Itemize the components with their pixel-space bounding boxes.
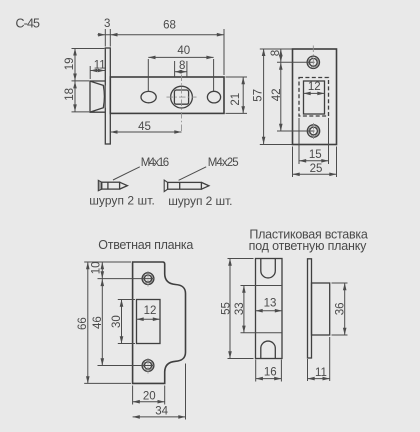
dim line 3 / 68 (98, 34, 225, 36)
centerline vertical through square (181, 75, 183, 133)
svg-text:шуруп 2 шт.: шуруп 2 шт. (89, 194, 155, 208)
top notch (261, 259, 276, 278)
insert side block (312, 283, 330, 335)
extension lines left (84, 261, 131, 263)
faceplate front outline (293, 49, 337, 145)
svg-text:30: 30 (111, 315, 123, 328)
bottom screw hole (307, 125, 319, 137)
svg-text:25: 25 (310, 163, 323, 175)
latch hole 12 (304, 81, 325, 114)
screw M4x25 tip (201, 182, 209, 189)
svg-text:С-45: С-45 (16, 17, 41, 31)
hole centerlines (277, 61, 315, 63)
dim 20 (132, 386, 134, 405)
dim 33 (243, 286, 245, 333)
dim 21 (226, 76, 248, 78)
dim 19 / 18 extension lines (72, 48, 105, 50)
screw M4x16 head (98, 180, 101, 190)
dim 57 (260, 48, 292, 50)
screw M4x16 tip (120, 182, 128, 189)
dim 55 (229, 259, 231, 359)
centerline horizontal through circle (167, 96, 197, 98)
dim line 19/18 (74, 48, 76, 111)
svg-text:68: 68 (163, 20, 176, 32)
svg-text:под ответную планку: под ответную планку (249, 239, 368, 253)
dim 8 / 42 line (277, 48, 290, 50)
svg-text:13: 13 (264, 298, 277, 310)
svg-text:10: 10 (90, 262, 102, 275)
svg-text:34: 34 (155, 405, 168, 417)
svg-text:36: 36 (335, 303, 347, 316)
dim 55 ext (228, 258, 254, 260)
dim 25 (292, 147, 294, 178)
svg-text:20: 20 (143, 391, 156, 403)
svg-text:55: 55 (220, 302, 232, 315)
svg-text:шуруп 2 шт.: шуруп 2 шт. (168, 194, 232, 208)
extension line dim 68 right (223, 29, 225, 75)
svg-text:3: 3 (104, 18, 110, 30)
latch bolt (90, 81, 106, 112)
strike rect hole (137, 300, 161, 344)
strike plate outline (133, 262, 186, 383)
dim 34 (185, 364, 187, 420)
faceplate side bar (105, 48, 110, 144)
insert front outline (256, 259, 283, 359)
dim 45 (110, 131, 181, 133)
extension line to oval right (213, 59, 215, 92)
svg-text:33: 33 (234, 302, 246, 315)
bottom screw hole (142, 360, 154, 372)
leader M4x25 (179, 167, 207, 181)
bottom notch (261, 341, 276, 358)
svg-text:11: 11 (315, 367, 327, 379)
svg-text:16: 16 (264, 367, 277, 379)
spindle circle (171, 86, 193, 108)
svg-text:15: 15 (309, 149, 322, 161)
dim 16 (255, 360, 257, 382)
extension lines dim 3 (104, 29, 106, 47)
svg-text:8: 8 (179, 60, 185, 72)
svg-text:66: 66 (77, 317, 89, 330)
dim 10 / 46 (101, 262, 103, 366)
svg-text:11: 11 (94, 60, 106, 72)
dim 40 (148, 56, 213, 58)
svg-text:45: 45 (138, 121, 151, 133)
top screw hole (307, 56, 319, 68)
dim 11 (insert) (307, 359, 309, 381)
dim 15 (298, 118, 300, 164)
svg-text:21: 21 (230, 93, 242, 106)
svg-text:М4х25: М4х25 (208, 157, 239, 169)
insert side flange (308, 259, 312, 358)
top screw hole (142, 273, 154, 285)
dim 11 (89, 66, 91, 79)
screw M4x16 shank (102, 182, 120, 189)
svg-text:40: 40 (177, 45, 190, 57)
svg-text:19: 19 (64, 58, 76, 71)
leader M4x16 (113, 167, 140, 180)
latch body (110, 77, 224, 113)
oval hole left (141, 91, 156, 102)
extension line to oval left (147, 59, 149, 92)
svg-text:М4х16: М4х16 (141, 157, 170, 169)
dashed latch opening (299, 78, 329, 117)
svg-text:Ответная планка: Ответная планка (98, 238, 193, 252)
svg-text:18: 18 (64, 88, 76, 101)
section lines (241, 285, 283, 287)
svg-text:42: 42 (271, 89, 283, 102)
screw M4x25 head (164, 180, 167, 192)
svg-text:12: 12 (308, 81, 321, 93)
svg-text:12: 12 (144, 305, 157, 317)
svg-text:8: 8 (270, 50, 282, 56)
dim 8 (square) (174, 61, 176, 77)
dim 36 (332, 282, 348, 284)
dim 30 (121, 300, 123, 344)
screw M4x25 shank (168, 182, 202, 189)
svg-text:46: 46 (92, 316, 104, 329)
svg-text:57: 57 (252, 89, 264, 102)
spindle square 8mm (174, 90, 188, 104)
oval hole right (207, 91, 220, 103)
dim 66 (87, 262, 89, 383)
